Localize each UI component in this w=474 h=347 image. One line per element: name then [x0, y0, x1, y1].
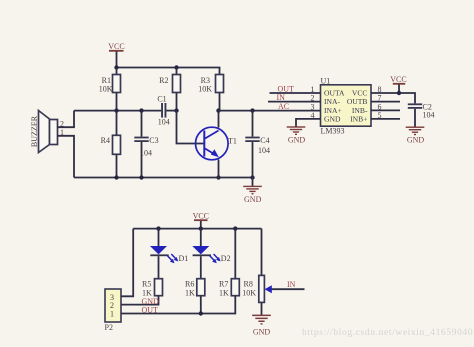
svg-text:U1: U1	[321, 77, 331, 86]
svg-text:GND: GND	[407, 136, 425, 145]
wire buzzer pin1 to bottom rail	[58, 136, 75, 178]
svg-text:7: 7	[378, 94, 382, 103]
node C1/R2 junction	[174, 108, 178, 112]
LED D2	[192, 229, 230, 279]
wire T1 collector up	[218, 111, 220, 128]
resistor R3	[198, 68, 223, 111]
wire buzzer pin2 to mid line	[58, 111, 75, 128]
resistor R5	[142, 279, 163, 298]
capacitor C3	[134, 111, 158, 178]
svg-text:10K: 10K	[242, 289, 256, 298]
resistor R2	[159, 68, 180, 111]
svg-text:VCC: VCC	[193, 212, 209, 221]
svg-text:D2: D2	[221, 254, 231, 263]
svg-text:VCC: VCC	[390, 75, 406, 84]
svg-text:https://blog.csdn.net/weixin_4: https://blog.csdn.net/weixin_41659040	[302, 328, 473, 338]
svg-text:GND: GND	[324, 115, 341, 124]
pin 2 wire (IN)	[268, 101, 321, 103]
svg-text:INB+: INB+	[350, 115, 367, 124]
capacitor C4	[245, 111, 270, 178]
svg-text:GND: GND	[253, 328, 271, 337]
svg-text:2: 2	[311, 94, 315, 103]
svg-text:R4: R4	[101, 136, 110, 145]
power VCC (at U1 pin 8)	[390, 75, 406, 93]
wire LED top rail	[133, 228, 261, 230]
svg-text:104: 104	[140, 149, 152, 158]
LED D1	[150, 229, 188, 279]
wire P2 pin1 to R6/R7 (OUT net)	[121, 296, 235, 314]
node C3 bottom	[139, 175, 143, 179]
svg-text:4: 4	[311, 111, 315, 120]
svg-text:104: 104	[423, 111, 435, 120]
svg-text:R6: R6	[185, 280, 194, 289]
node collector/R3/AC junction	[216, 108, 220, 112]
wire T1 emitter down	[218, 160, 220, 178]
svg-text:5: 5	[378, 111, 382, 120]
resistor R6	[185, 279, 205, 298]
svg-text:T1: T1	[228, 137, 237, 146]
ground below C2	[406, 127, 425, 145]
svg-text:VCC: VCC	[352, 89, 368, 98]
svg-text:D1: D1	[179, 254, 189, 263]
resistor R4	[101, 111, 121, 178]
node VCC/D2 top	[199, 226, 203, 230]
pin 5 wire stub	[371, 118, 400, 120]
node R4 bottom	[114, 175, 118, 179]
svg-text:R5: R5	[142, 280, 151, 289]
node R6/OUT junction	[199, 311, 203, 315]
svg-text:10K: 10K	[198, 85, 212, 94]
wire mid line right (AC net)	[219, 110, 321, 112]
wire R6 bottom drop	[200, 296, 202, 314]
svg-text:R2: R2	[159, 76, 168, 85]
svg-text:OUTA: OUTA	[324, 89, 345, 98]
svg-text:GND: GND	[288, 136, 306, 145]
power VCC (bottom circuit)	[193, 212, 209, 229]
svg-text:AC: AC	[278, 102, 289, 111]
svg-text:GND: GND	[244, 195, 262, 204]
svg-text:1K: 1K	[185, 289, 195, 298]
svg-text:C3: C3	[149, 136, 158, 145]
node emitter/bottom rail	[216, 175, 220, 179]
resistor R7	[219, 229, 239, 298]
wire P2 pin3 to LED rail	[121, 229, 133, 297]
capacitor C1	[157, 94, 176, 126]
node VCC/R1 junction	[114, 65, 118, 69]
connector P2	[105, 289, 122, 332]
svg-text:C4: C4	[260, 136, 269, 145]
node VCC/pin8 junction	[397, 91, 401, 95]
svg-text:1K: 1K	[142, 289, 152, 298]
buzzer LS1	[30, 111, 64, 153]
svg-text:INA-: INA-	[324, 97, 340, 106]
svg-text:C1: C1	[157, 94, 166, 103]
wire P2 pin2 to R5 (GND net)	[121, 296, 159, 305]
node C3 top	[139, 108, 143, 112]
svg-text:OUTB: OUTB	[347, 97, 368, 106]
svg-text:104: 104	[258, 146, 270, 155]
potentiometer R8	[242, 229, 304, 303]
pin 4 wire to ground	[296, 119, 321, 127]
svg-text:1: 1	[110, 310, 114, 319]
pin 7 wire stub	[371, 101, 400, 103]
capacitor C2	[408, 103, 435, 127]
svg-text:OUT: OUT	[142, 305, 159, 314]
node R7 top	[233, 226, 237, 230]
node C4 bottom / GND	[250, 175, 254, 179]
op-amp U1 LM393	[321, 77, 372, 136]
svg-text:R8: R8	[244, 280, 253, 289]
pin 6 wire stub	[371, 109, 400, 111]
ground below R8	[252, 302, 271, 336]
power VCC (top circuit)	[108, 42, 124, 68]
wire top rail	[116, 67, 221, 69]
pin 8 wire to VCC and C2	[371, 93, 415, 103]
svg-text:IN: IN	[287, 280, 296, 289]
resistor R1	[99, 68, 121, 111]
svg-text:104: 104	[158, 118, 170, 127]
ground at U1 pin 4	[287, 126, 306, 144]
svg-text:P2: P2	[105, 323, 113, 332]
svg-text:R7: R7	[219, 280, 228, 289]
node D1 top	[156, 226, 160, 230]
ground below C4	[243, 178, 262, 205]
svg-text:LM393: LM393	[321, 127, 345, 136]
wire bottom rail	[74, 177, 253, 179]
node rail/R2 junction	[174, 65, 178, 69]
svg-text:IN: IN	[277, 93, 286, 102]
svg-text:10K: 10K	[99, 85, 113, 94]
transistor T1	[196, 127, 237, 160]
svg-text:1K: 1K	[219, 289, 229, 298]
svg-text:VCC: VCC	[108, 42, 124, 51]
node R1 bottom	[114, 108, 118, 112]
pin 1 wire (OUT)	[270, 92, 321, 94]
svg-text:BUZZER: BUZZER	[30, 115, 39, 147]
wire R2 bottom to T1 base	[177, 111, 204, 144]
wire mid line left	[74, 110, 161, 112]
node C4 top	[250, 108, 254, 112]
